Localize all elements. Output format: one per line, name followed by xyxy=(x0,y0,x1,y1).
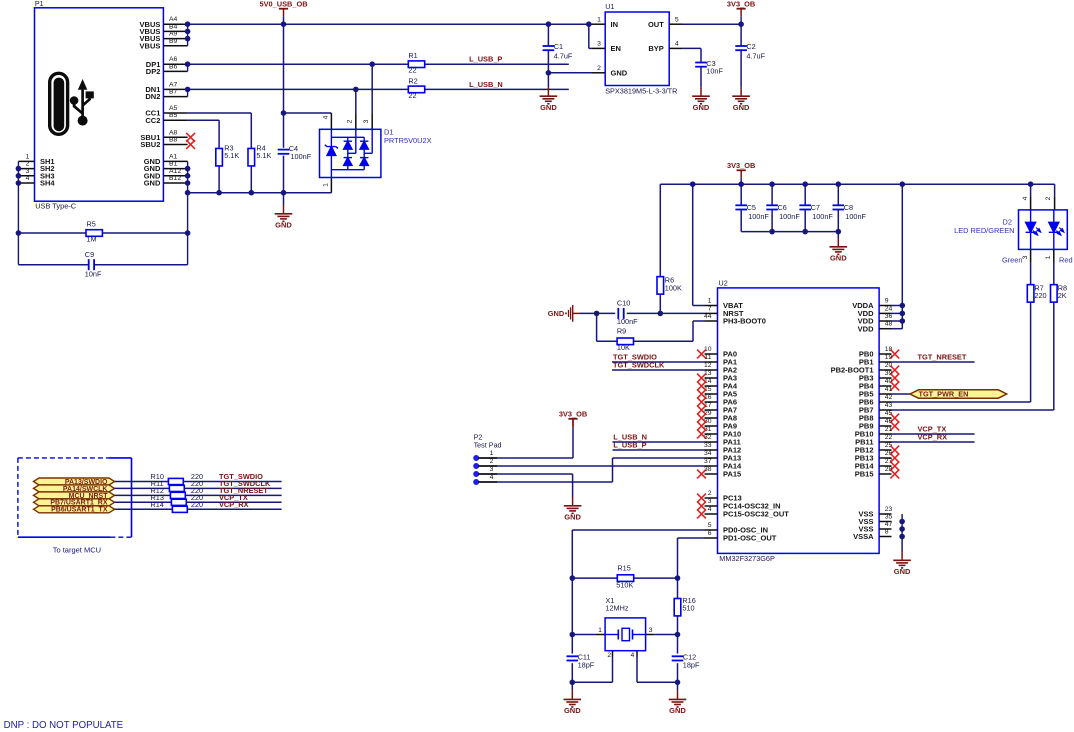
svg-text:3: 3 xyxy=(26,168,30,175)
svg-text:2: 2 xyxy=(597,65,601,72)
svg-text:4: 4 xyxy=(490,474,494,481)
svg-text:PB15: PB15 xyxy=(855,470,874,479)
svg-text:DN2: DN2 xyxy=(145,92,160,101)
svg-text:PRTR5V0U2X: PRTR5V0U2X xyxy=(384,136,432,145)
svg-text:22: 22 xyxy=(885,434,893,441)
svg-text:3V3_OB: 3V3_OB xyxy=(559,410,587,419)
svg-text:3: 3 xyxy=(490,466,494,473)
svg-text:3: 3 xyxy=(708,498,712,505)
svg-text:A12: A12 xyxy=(169,168,181,175)
svg-text:2: 2 xyxy=(607,652,611,659)
svg-text:GND: GND xyxy=(275,221,292,230)
svg-text:2: 2 xyxy=(708,490,712,497)
svg-text:VDD: VDD xyxy=(858,324,874,333)
svg-text:10nF: 10nF xyxy=(706,67,723,76)
svg-text:L_USB_P: L_USB_P xyxy=(469,55,502,64)
svg-text:B8: B8 xyxy=(169,137,178,144)
svg-text:4: 4 xyxy=(1022,196,1029,200)
svg-text:48: 48 xyxy=(885,321,893,328)
svg-text:100nF: 100nF xyxy=(845,212,866,221)
svg-text:CC2: CC2 xyxy=(145,116,160,125)
svg-text:B5: B5 xyxy=(169,112,178,119)
svg-text:A8: A8 xyxy=(169,129,178,136)
svg-text:C10: C10 xyxy=(617,298,630,307)
svg-text:R15: R15 xyxy=(617,563,630,572)
svg-text:22: 22 xyxy=(408,66,416,75)
svg-text:U1: U1 xyxy=(605,2,614,11)
svg-text:A5: A5 xyxy=(169,105,178,112)
svg-text:4.7uF: 4.7uF xyxy=(554,51,573,60)
svg-text:B6: B6 xyxy=(169,63,178,70)
svg-text:IN: IN xyxy=(611,20,619,29)
svg-text:42: 42 xyxy=(885,394,893,401)
svg-text:GND: GND xyxy=(611,68,628,77)
svg-text:9: 9 xyxy=(885,298,889,305)
svg-text:R1: R1 xyxy=(408,51,417,60)
svg-text:GND: GND xyxy=(669,706,686,715)
svg-text:2: 2 xyxy=(1045,196,1052,200)
svg-text:21: 21 xyxy=(885,426,893,433)
svg-text:A9: A9 xyxy=(169,31,178,38)
svg-text:35: 35 xyxy=(885,514,893,521)
svg-text:VBUS: VBUS xyxy=(140,41,161,50)
svg-text:100nF: 100nF xyxy=(291,152,312,161)
svg-text:3V3_OB: 3V3_OB xyxy=(727,161,755,170)
svg-text:C5: C5 xyxy=(747,203,756,212)
svg-text:2K: 2K xyxy=(1058,291,1067,300)
svg-text:100K: 100K xyxy=(665,283,682,292)
svg-text:19: 19 xyxy=(885,354,893,361)
svg-text:R5: R5 xyxy=(87,220,96,229)
svg-text:24: 24 xyxy=(885,305,893,312)
svg-text:EN: EN xyxy=(611,44,621,53)
svg-text:A6: A6 xyxy=(169,56,178,63)
svg-text:220: 220 xyxy=(191,500,203,509)
svg-text:22: 22 xyxy=(408,91,416,100)
svg-text:6: 6 xyxy=(708,530,712,537)
svg-text:3V3_OB: 3V3_OB xyxy=(727,0,755,9)
svg-text:GND: GND xyxy=(564,513,581,522)
svg-text:1: 1 xyxy=(26,153,30,160)
svg-text:10nF: 10nF xyxy=(85,270,102,279)
svg-text:2: 2 xyxy=(26,161,30,168)
svg-text:C9: C9 xyxy=(85,250,94,259)
svg-text:PH3-BOOT0: PH3-BOOT0 xyxy=(723,317,766,326)
svg-text:43: 43 xyxy=(885,402,893,409)
svg-text:4: 4 xyxy=(675,41,679,48)
svg-text:44: 44 xyxy=(704,313,712,320)
svg-text:36: 36 xyxy=(885,313,893,320)
svg-text:100nF: 100nF xyxy=(617,317,638,326)
svg-text:41: 41 xyxy=(885,386,893,393)
svg-text:32: 32 xyxy=(704,434,712,441)
svg-text:C7: C7 xyxy=(811,203,820,212)
svg-text:GND: GND xyxy=(894,567,911,576)
svg-text:PD1-OSC_OUT: PD1-OSC_OUT xyxy=(723,534,777,543)
svg-text:B4: B4 xyxy=(169,23,178,30)
svg-text:To target MCU: To target MCU xyxy=(53,546,101,555)
svg-text:B9: B9 xyxy=(169,38,178,45)
svg-text:5: 5 xyxy=(675,16,679,23)
svg-text:GND: GND xyxy=(564,706,581,715)
svg-text:220: 220 xyxy=(1034,291,1046,300)
svg-text:12MHz: 12MHz xyxy=(605,604,628,613)
svg-text:GND: GND xyxy=(540,103,557,112)
svg-text:100nF: 100nF xyxy=(812,212,833,221)
svg-text:5: 5 xyxy=(708,522,712,529)
svg-text:4: 4 xyxy=(26,175,30,182)
svg-text:BYP: BYP xyxy=(648,44,663,53)
svg-text:A1: A1 xyxy=(169,153,178,160)
svg-text:GND: GND xyxy=(830,254,847,263)
svg-text:23: 23 xyxy=(885,506,893,513)
svg-text:4.7uF: 4.7uF xyxy=(746,51,765,60)
svg-text:PB6/USART1_TX: PB6/USART1_TX xyxy=(51,507,108,514)
svg-text:1M: 1M xyxy=(87,235,97,244)
svg-text:A4: A4 xyxy=(169,16,178,23)
svg-text:100nF: 100nF xyxy=(748,212,769,221)
svg-text:GND: GND xyxy=(693,103,710,112)
svg-text:OUT: OUT xyxy=(648,20,664,29)
svg-text:5.1K: 5.1K xyxy=(224,151,239,160)
svg-text:100nF: 100nF xyxy=(779,212,800,221)
svg-text:B7: B7 xyxy=(169,89,178,96)
svg-text:47: 47 xyxy=(885,521,893,528)
svg-text:8: 8 xyxy=(885,529,889,536)
svg-text:3: 3 xyxy=(1022,255,1029,259)
svg-text:USB Type-C: USB Type-C xyxy=(35,202,77,211)
svg-text:L_USB_P: L_USB_P xyxy=(613,440,646,449)
svg-text:VCP_RX: VCP_RX xyxy=(918,432,948,441)
svg-text:C6: C6 xyxy=(778,203,787,212)
svg-text:TGT_SWDCLK: TGT_SWDCLK xyxy=(613,360,665,369)
svg-text:TGT_NRESET: TGT_NRESET xyxy=(918,352,967,361)
svg-text:1: 1 xyxy=(598,627,602,634)
svg-text:GND: GND xyxy=(548,309,565,318)
svg-text:VCP_RX: VCP_RX xyxy=(219,500,249,509)
svg-text:3: 3 xyxy=(363,119,370,123)
svg-text:C2: C2 xyxy=(746,42,755,51)
svg-text:510: 510 xyxy=(682,603,694,612)
svg-text:4: 4 xyxy=(631,652,635,659)
svg-text:3: 3 xyxy=(597,41,601,48)
svg-text:11: 11 xyxy=(704,354,711,361)
svg-text:B1: B1 xyxy=(169,161,178,168)
svg-text:L_USB_N: L_USB_N xyxy=(469,80,503,89)
svg-text:37: 37 xyxy=(704,458,712,465)
svg-text:R9: R9 xyxy=(617,327,626,336)
svg-text:Test Pad: Test Pad xyxy=(474,441,502,450)
svg-text:GND: GND xyxy=(144,179,161,188)
svg-text:SH4: SH4 xyxy=(40,179,55,188)
svg-text:PA15: PA15 xyxy=(723,470,741,479)
svg-text:SBU2: SBU2 xyxy=(140,140,160,149)
svg-text:1: 1 xyxy=(1045,255,1052,259)
svg-text:1: 1 xyxy=(708,298,712,305)
svg-text:Red: Red xyxy=(1059,256,1073,265)
svg-text:18pF: 18pF xyxy=(578,660,595,669)
svg-text:LED RED/GREEN: LED RED/GREEN xyxy=(954,226,1014,235)
svg-text:TGT_PWR_EN: TGT_PWR_EN xyxy=(919,390,969,399)
svg-text:12: 12 xyxy=(704,362,712,369)
svg-text:2: 2 xyxy=(347,119,354,123)
svg-text:2: 2 xyxy=(490,458,494,465)
svg-text:MM32F3273G6P: MM32F3273G6P xyxy=(719,554,775,563)
svg-text:1: 1 xyxy=(322,183,329,187)
svg-text:1: 1 xyxy=(490,450,494,457)
svg-text:10K: 10K xyxy=(617,343,630,352)
svg-text:4: 4 xyxy=(708,506,712,513)
svg-text:34: 34 xyxy=(704,450,712,457)
svg-text:33: 33 xyxy=(704,442,712,449)
svg-text:1: 1 xyxy=(597,16,601,23)
svg-text:R14: R14 xyxy=(151,500,164,509)
svg-text:3: 3 xyxy=(649,627,653,634)
svg-text:5.1K: 5.1K xyxy=(256,151,271,160)
svg-text:PC15-OSC32_OUT: PC15-OSC32_OUT xyxy=(723,510,789,519)
svg-text:5V0_USB_OB: 5V0_USB_OB xyxy=(259,0,307,9)
svg-text:Green: Green xyxy=(1002,256,1023,265)
svg-text:DNP : DO NOT POPULATE: DNP : DO NOT POPULATE xyxy=(4,720,124,731)
svg-text:DP2: DP2 xyxy=(146,67,161,76)
svg-text:510K: 510K xyxy=(616,581,633,590)
svg-text:7: 7 xyxy=(708,305,712,312)
svg-text:A7: A7 xyxy=(169,81,178,88)
svg-text:GND: GND xyxy=(733,103,750,112)
svg-text:R2: R2 xyxy=(408,76,417,85)
svg-text:C1: C1 xyxy=(554,42,563,51)
svg-text:4: 4 xyxy=(322,115,329,119)
svg-text:B12: B12 xyxy=(169,175,181,182)
svg-text:C8: C8 xyxy=(844,203,853,212)
svg-text:U2: U2 xyxy=(719,279,728,288)
svg-text:18pF: 18pF xyxy=(683,660,700,669)
svg-text:VSSA: VSSA xyxy=(853,532,874,541)
svg-text:P1: P1 xyxy=(35,0,44,8)
svg-text:SPX3819M5-L-3-3/TR: SPX3819M5-L-3-3/TR xyxy=(605,87,677,96)
